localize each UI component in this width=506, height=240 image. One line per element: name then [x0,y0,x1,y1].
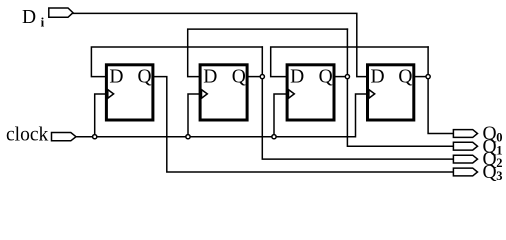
flip-flop U2 body [200,65,247,120]
junction FF4 Q node [426,75,430,79]
wire FF2 Q to junction [249,76,263,78]
wire net B: FF2 Q junction up/left to FF1 D input [91,47,262,77]
label Q1 [483,136,503,157]
wire clock net main run [76,94,366,137]
svg-text:Q: Q [232,66,246,87]
label Q of U1 [138,66,152,87]
output pin Q1 symbol [453,142,477,150]
svg-text:D: D [22,7,36,28]
flip-flop U4 body [368,65,414,120]
wire FF4 Q to junction [415,76,428,78]
label Q of U2 [232,66,246,87]
svg-text:3: 3 [496,169,502,183]
svg-text:D: D [371,66,385,87]
wire clock stub to FF3 [274,94,286,137]
flip-flop U1 clock triangle [108,90,114,99]
label D of U3 [290,66,304,87]
svg-text:Q: Q [319,66,333,87]
svg-text:Q: Q [138,66,152,87]
output pin Q0 symbol [453,130,477,138]
label Q0 [483,124,503,145]
svg-text:i: i [41,14,45,29]
wire clock stub to FF2 [188,94,199,137]
wire net C: FF4 Q junction up/left to FF3 D input [271,47,428,77]
flip-flop U4 clock triangle [369,90,375,99]
label D of U4 [371,66,385,87]
label D of U2 [203,66,217,87]
label Q of U4 [398,66,412,87]
flip-flop U3 clock triangle [289,90,295,99]
svg-text:Q: Q [398,66,412,87]
label Q of U3 [319,66,333,87]
wire Di net: pin to FF4 D input [73,13,366,76]
flip-flop U1 body [106,65,152,120]
wire net A: FF3 Q junction up/left to FF2 D input [188,29,348,77]
label Di [22,7,45,30]
junction clock-FF3 [272,135,276,139]
svg-text:D: D [203,66,217,87]
wire FF4 Q branch down to output Q0 [428,47,453,134]
flip-flop U3 body [287,65,334,120]
input pin Di symbol [49,8,73,17]
junction FF3 Q node [345,75,349,79]
label D of U1 [109,66,123,87]
svg-text:Q: Q [483,162,497,183]
output pin Q2 symbol [453,155,477,163]
junction FF2 Q node [260,75,264,79]
wire FF2 Q branch down to output Q2 [262,47,453,159]
label Q3 [483,162,503,183]
wire FF1 Q to output Q3 [154,77,453,172]
svg-text:D: D [109,66,123,87]
svg-text:D: D [290,66,304,87]
junction clock-FF2 [186,135,190,139]
label Q2 [483,149,503,170]
wire clock stub to FF1 [95,94,105,137]
wire FF3 Q to junction [335,76,347,78]
wire FF3 Q branch down to output Q1 [347,29,453,146]
svg-text:clock: clock [6,125,48,146]
label clock [6,125,48,146]
junction clock-FF1 [93,135,97,139]
output pin Q3 symbol [453,168,477,176]
flip-flop U2 clock triangle [202,90,208,99]
clock input pin symbol [52,133,77,141]
svg-text:2: 2 [496,156,502,170]
